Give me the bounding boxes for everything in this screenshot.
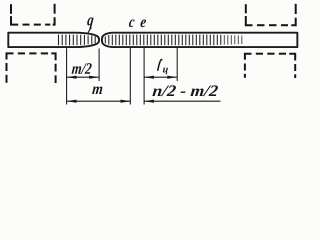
label m/2 [72, 63, 92, 74]
electrode clamp top-right (dashed) [246, 4, 296, 26]
label c [129, 19, 135, 27]
label m [92, 86, 102, 94]
hatch ticks in left bar (heated zone) [59, 35, 96, 46]
extension line B (weld joint) [98, 49, 100, 82]
dimension l_ts: line and arrowheads [144, 76, 177, 79]
left bar (rod) with tapered welded nose [8, 33, 99, 47]
hatch ticks in right bar (heated zone) [105, 35, 221, 46]
electrode clamp bottom-right (dashed) [245, 53, 295, 78]
label l_ts [158, 59, 162, 70]
extension line E (right end of l_ts) [176, 48, 178, 81]
extension line A (left end of m) [66, 48, 68, 104]
electrode clamp bottom-left (dashed) [7, 52, 56, 83]
label n/2 - m/2 [152, 85, 218, 96]
electrode clamp top-left (dashed) [11, 4, 55, 26]
dimension n/2 - m/2: leftward arrow, line to right [144, 100, 220, 103]
right bar (rod) with tapered welded nose [102, 33, 297, 47]
extension line D (section e) [143, 48, 145, 105]
dimension m/2: line and arrowheads [67, 76, 99, 79]
extension line C (section c) [129, 48, 131, 105]
label q with tail touching bar [87, 18, 93, 29]
dimension m: line and arrowheads [67, 100, 130, 103]
label e [140, 19, 146, 27]
